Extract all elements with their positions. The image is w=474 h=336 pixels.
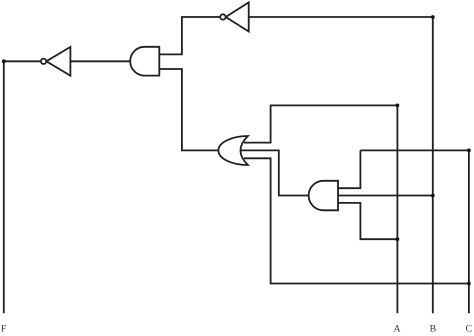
svg-text:A: A [394,324,401,335]
svg-text:F: F [1,324,7,335]
svg-text:C: C [466,324,473,335]
svg-text:B: B [430,324,437,335]
